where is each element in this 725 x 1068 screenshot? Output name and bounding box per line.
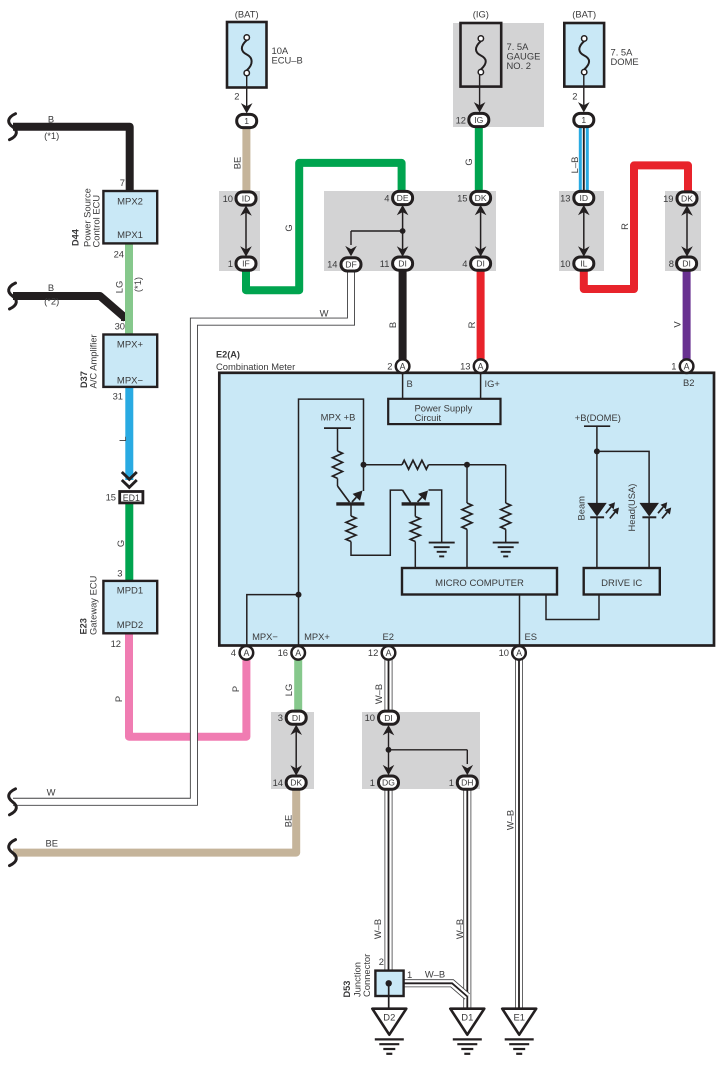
svg-text:16: 16 <box>278 647 288 658</box>
svg-text:3: 3 <box>117 568 122 579</box>
svg-text:2: 2 <box>387 361 392 372</box>
svg-text:1: 1 <box>370 777 375 788</box>
label Head(USA) <box>626 484 637 532</box>
svg-text:R: R <box>619 223 630 230</box>
svg-text:IG: IG <box>474 115 483 125</box>
wire ES from micro computer <box>519 595 521 647</box>
svg-text:4: 4 <box>462 258 467 269</box>
label W upper <box>320 308 329 319</box>
svg-text:31: 31 <box>113 391 123 402</box>
svg-text:MPX−: MPX− <box>252 631 278 642</box>
svg-text:B: B <box>387 322 398 328</box>
svg-text:DI: DI <box>682 259 691 269</box>
resistor R5 Q1 base <box>346 516 356 542</box>
connector oval 14 DK lower <box>273 776 307 789</box>
label L-B <box>569 157 580 174</box>
svg-text:L: L <box>117 436 128 441</box>
svg-text:Control ECU: Control ECU <box>91 195 102 248</box>
ECU box E23 <box>103 581 157 633</box>
label MPX+ <box>304 631 330 642</box>
LED Beam light arrows <box>606 502 619 518</box>
svg-text:NO. 2: NO. 2 <box>507 60 532 71</box>
wire B (*1) black from stub to D44 pin 7 <box>13 127 130 191</box>
label L <box>117 436 128 441</box>
branch to DH <box>389 750 474 776</box>
svg-text:W–B: W–B <box>372 919 383 939</box>
shade box behind fuse (IG) <box>453 23 544 127</box>
label Beam <box>576 496 587 521</box>
ECU box D44 <box>103 191 157 243</box>
svg-text:B: B <box>48 114 54 125</box>
connector oval 1 fuse1 <box>237 114 257 127</box>
label W-B E2 <box>373 684 384 704</box>
shade box behind connector DI/DG/DH <box>362 712 480 789</box>
svg-text:E2(A): E2(A) <box>216 350 240 360</box>
wire LG from D44 pin 24 to D37 pin 30 <box>125 243 133 335</box>
svg-text:MICRO COMPUTER: MICRO COMPUTER <box>435 578 524 589</box>
svg-text:DK: DK <box>681 194 693 204</box>
fuse 7.5A DOME <box>564 23 604 87</box>
svg-text:DI: DI <box>384 713 393 723</box>
connector oval 4 DE <box>384 191 412 204</box>
link DI-DG <box>383 725 395 775</box>
connector oval 1 fuse3 <box>574 113 594 126</box>
svg-text:E1: E1 <box>513 1012 524 1023</box>
wire rail to R2 <box>364 464 403 466</box>
pin 2 fuse1 <box>234 91 239 102</box>
label D44 Power Source Control ECU <box>71 188 102 247</box>
svg-text:MPX +B: MPX +B <box>321 412 356 423</box>
label D53 Junction Connector <box>342 954 372 998</box>
emitter arrow Q1 <box>352 491 363 503</box>
wire G green from IG to DK <box>475 127 483 192</box>
svg-text:BE: BE <box>232 157 243 170</box>
svg-text:15: 15 <box>457 192 467 203</box>
svg-text:7: 7 <box>120 177 125 188</box>
svg-text:10: 10 <box>223 193 233 204</box>
svg-text:R: R <box>466 321 477 328</box>
link DI-DK lower <box>290 725 302 776</box>
pin 2 fuse3 <box>572 91 577 102</box>
svg-text:L–B: L–B <box>569 157 580 174</box>
svg-text:IL: IL <box>580 259 587 269</box>
wire R red from DI to meter pin 13 <box>477 270 485 360</box>
connector oval 8 DI <box>669 257 697 270</box>
svg-text:Circuit: Circuit <box>415 412 442 423</box>
chevron arrows above ED1 <box>122 472 137 487</box>
svg-text:LG: LG <box>114 281 125 294</box>
svg-text:12: 12 <box>111 638 121 649</box>
transistor Q1 <box>336 502 364 505</box>
svg-text:W–B: W–B <box>425 969 445 980</box>
meter pin ES 10 A <box>499 646 526 660</box>
svg-text:DF: DF <box>345 260 356 270</box>
svg-text:A: A <box>478 361 484 371</box>
wire fuse2 to IG oval <box>474 75 486 113</box>
svg-text:G: G <box>283 224 294 231</box>
connector oval 15 DK <box>457 191 491 204</box>
svg-text:W–B: W–B <box>505 810 516 830</box>
ground E1 <box>502 1009 536 1054</box>
junction MPX node <box>296 592 302 598</box>
wire stub brace B (*2) <box>9 283 17 309</box>
shade box behind connector ID/IF <box>219 191 260 271</box>
meter pin 2 A <box>387 359 409 373</box>
svg-text:BE: BE <box>283 815 294 828</box>
wire W white from DF to stub <box>13 271 351 802</box>
svg-text:(*1): (*1) <box>44 130 59 141</box>
svg-text:A: A <box>400 361 406 371</box>
pin 30 D37 <box>115 321 125 332</box>
shade box behind connector ID/IL <box>559 191 604 271</box>
wire fuse1 to connector 1 <box>241 76 253 114</box>
wire W-B from meter E2 to DI <box>385 659 393 712</box>
wire R4 to ground <box>505 529 507 542</box>
wire L-B from connector 1 to ID right <box>579 127 589 192</box>
label W-B ES <box>505 810 516 830</box>
label W-B DH <box>454 919 465 939</box>
svg-text:DE: DE <box>397 193 409 203</box>
svg-text:MPD2: MPD2 <box>117 620 143 631</box>
svg-text:14: 14 <box>327 259 337 270</box>
label +B(DOME) <box>575 412 621 423</box>
svg-text:D53: D53 <box>342 981 352 998</box>
svg-text:15: 15 <box>106 492 116 503</box>
fuse 7.5A GAUGE NO.2 <box>461 23 502 87</box>
svg-text:DH: DH <box>461 778 473 788</box>
label W-B DG <box>372 919 383 939</box>
svg-text:19: 19 <box>663 193 673 204</box>
svg-text:8: 8 <box>669 258 674 269</box>
connector oval 10 ID <box>223 192 256 205</box>
svg-text:Beam: Beam <box>576 496 587 521</box>
svg-text:G: G <box>115 540 126 547</box>
ground D2 <box>372 1009 406 1054</box>
power supply circuit box <box>388 399 500 424</box>
wire R red from IL to DK <box>584 165 688 289</box>
combination meter box E2(A) <box>219 373 714 646</box>
svg-text:D2: D2 <box>383 1012 395 1023</box>
junction dot R3 <box>464 462 470 468</box>
wire MPX- branch <box>247 595 299 646</box>
svg-text:(BAT): (BAT) <box>572 9 596 20</box>
label LG bottom <box>283 684 294 697</box>
link DK-DI right <box>681 205 693 256</box>
label (BAT) fuse3 <box>572 9 596 20</box>
pin 12 E23 <box>111 638 121 649</box>
connector oval 11 DI <box>380 257 413 270</box>
wire B black from DI to meter pin 2 <box>399 270 407 360</box>
connector oval 1 DG <box>370 776 399 789</box>
link ID-IL <box>578 205 590 257</box>
svg-text:A: A <box>386 648 392 658</box>
wire LG overlap at D37 pin 30 <box>125 300 133 335</box>
svg-text:W: W <box>47 787 56 798</box>
label G top <box>283 224 294 231</box>
svg-text:30: 30 <box>115 321 125 332</box>
label ES <box>525 631 538 642</box>
label B (*1) <box>44 114 59 142</box>
wire Q1 base path <box>351 490 411 555</box>
svg-text:W–B: W–B <box>373 684 384 704</box>
pin 2 D53 <box>379 956 384 967</box>
wire V purple from DI to meter B2 <box>683 270 691 360</box>
label E2(A) Combination Meter <box>216 350 295 372</box>
label W lower <box>47 787 56 798</box>
svg-text:B: B <box>407 378 413 389</box>
svg-text:P: P <box>230 686 241 692</box>
wire R2 to corner <box>429 464 506 466</box>
svg-text:ID: ID <box>580 193 589 203</box>
label G fuse IG <box>463 158 474 165</box>
shade box behind connector DI/DK lower-left <box>271 712 314 789</box>
connector oval 13 ID <box>560 191 594 204</box>
svg-text:MPX−: MPX− <box>117 376 144 387</box>
svg-text:4: 4 <box>384 192 389 203</box>
resistor R4 <box>501 503 511 529</box>
svg-text:(*1): (*1) <box>132 277 143 292</box>
label P left <box>113 696 124 702</box>
svg-text:A/C Amplifier: A/C Amplifier <box>88 334 99 388</box>
svg-text:DI: DI <box>476 259 485 269</box>
wire BE from connector 1 to ID <box>242 128 250 193</box>
svg-text:Gateway ECU: Gateway ECU <box>88 575 99 635</box>
meter pin E2 12 A <box>368 646 395 660</box>
meter pin 13 A <box>460 359 487 373</box>
wire corner down to R4 <box>505 465 507 503</box>
wire micro computer to drive ic <box>546 595 599 620</box>
label 7.5A GAUGE NO.2 <box>507 41 541 71</box>
meter pin MPX- 4 A <box>231 646 253 660</box>
svg-text:MPX2: MPX2 <box>117 197 143 208</box>
svg-text:DOME: DOME <box>611 56 639 67</box>
label MPX +B <box>321 412 356 423</box>
svg-text:13: 13 <box>560 192 570 203</box>
svg-text:2: 2 <box>572 91 577 102</box>
svg-text:MPX+: MPX+ <box>304 631 330 642</box>
junction rail dot <box>361 462 367 468</box>
svg-text:1: 1 <box>581 115 586 125</box>
wire BE from DK to stub <box>13 789 296 853</box>
pin 1 D53 <box>407 969 412 980</box>
svg-text:ECU–B: ECU–B <box>272 55 303 66</box>
svg-text:(BAT): (BAT) <box>235 9 259 20</box>
label R right loop <box>619 223 630 230</box>
label IG+ pin <box>485 378 501 389</box>
svg-text:+B(DOME): +B(DOME) <box>575 412 621 423</box>
wire D53 to ground D2 <box>388 983 390 1009</box>
svg-text:1: 1 <box>407 969 412 980</box>
ground R4 <box>493 543 519 557</box>
wire R3 to micro computer <box>466 465 468 568</box>
wire W-B from DH to ground D1 <box>463 789 471 1009</box>
label 7.5A DOME <box>611 47 639 68</box>
svg-text:DG: DG <box>382 778 395 788</box>
svg-text:B: B <box>48 282 54 293</box>
svg-text:V: V <box>672 321 683 328</box>
label D37 A/C Amplifier <box>79 334 99 388</box>
branch to DF <box>345 231 402 256</box>
fuse 10A ECU-B <box>227 22 267 88</box>
wire Q2 base <box>414 506 416 569</box>
svg-text:24: 24 <box>114 249 124 260</box>
wire branch to LED2 <box>597 451 649 503</box>
ground Q2 <box>429 543 455 557</box>
svg-text:(IG): (IG) <box>473 9 489 20</box>
wire LG from meter MPX+ to DI <box>294 659 302 712</box>
svg-text:10: 10 <box>499 647 509 658</box>
svg-text:1: 1 <box>449 777 454 788</box>
wire G green from ED1 to E23 pin 3 <box>125 501 133 581</box>
transistor Q2 <box>402 502 430 505</box>
svg-text:A: A <box>516 648 522 658</box>
wire R1 to Q1 <box>338 478 350 502</box>
pin 24 D44 <box>114 249 124 260</box>
svg-text:1: 1 <box>244 116 249 126</box>
label V purple wire <box>672 321 683 328</box>
ECU box D37 <box>103 335 157 387</box>
svg-text:W: W <box>320 308 329 319</box>
connector oval 1 IF <box>228 257 256 270</box>
svg-text:10: 10 <box>365 712 375 723</box>
wire B (*2) black joining LG wire <box>13 296 126 321</box>
svg-text:W–B: W–B <box>454 919 465 939</box>
label MPX- <box>252 631 278 642</box>
svg-text:1: 1 <box>228 258 233 269</box>
svg-text:Head(USA): Head(USA) <box>626 484 637 532</box>
resistor R1 collector <box>333 451 343 478</box>
svg-text:DI: DI <box>292 713 301 723</box>
wire pin13 to power supply <box>480 373 482 399</box>
svg-text:DI: DI <box>398 259 407 269</box>
svg-text:Connector: Connector <box>361 954 372 997</box>
svg-text:P: P <box>113 696 124 702</box>
connector oval 1 DH <box>449 776 478 789</box>
meter pin MPX+ 16 A <box>278 646 305 660</box>
svg-text:13: 13 <box>460 361 470 372</box>
junction dome dot <box>594 448 600 454</box>
wire G green from IF to DE <box>246 163 402 290</box>
svg-text:DRIVE IC: DRIVE IC <box>601 578 642 589</box>
label B black wire <box>387 322 398 328</box>
wire W-B from D53 pin 1 to D1 wire <box>404 983 468 996</box>
svg-text:LG: LG <box>283 684 294 697</box>
svg-text:ID: ID <box>242 194 251 204</box>
connector oval 10 IL <box>560 257 594 270</box>
svg-text:12: 12 <box>368 647 378 658</box>
svg-text:DK: DK <box>290 778 302 788</box>
drive ic box <box>584 568 660 595</box>
wire L blue from D37 pin 31 to ED1 <box>125 387 133 480</box>
svg-text:A: A <box>684 361 690 371</box>
wire P pink from E23 pin 12 to meter MPX- <box>129 633 246 737</box>
svg-text:2: 2 <box>234 91 239 102</box>
svg-text:ED1: ED1 <box>123 493 140 503</box>
label LG (*1) <box>114 277 143 293</box>
wire MPX+ loop <box>299 399 364 646</box>
LED Head(USA) <box>640 503 658 568</box>
label BE on wire <box>283 815 294 828</box>
label (BAT) fuse1 <box>235 9 259 20</box>
label R red wire <box>466 321 477 328</box>
label W-B D53 <box>425 969 445 980</box>
wire stub brace W <box>9 789 17 815</box>
svg-text:B2: B2 <box>683 377 694 388</box>
link DK-DI <box>475 205 487 257</box>
svg-text:1: 1 <box>671 361 676 372</box>
wire stub brace B (*1) <box>9 114 17 140</box>
LED Head light arrows <box>658 502 671 518</box>
pin 15 ED1 <box>106 492 116 503</box>
label B (*2) <box>44 282 59 307</box>
label E2 <box>383 631 394 642</box>
resistor R3 <box>462 503 472 529</box>
svg-text:G: G <box>463 158 474 165</box>
pin 31 D37 <box>113 391 123 402</box>
svg-text:D44: D44 <box>71 228 81 246</box>
svg-text:IG+: IG+ <box>485 378 501 389</box>
link ID-IF <box>240 205 252 256</box>
wire emitter to rail <box>363 465 365 491</box>
svg-text:IF: IF <box>242 259 250 269</box>
label BE lower left <box>46 838 59 849</box>
wire stub brace BE <box>9 840 17 866</box>
svg-text:A: A <box>295 648 301 658</box>
rail MPX +B <box>324 428 351 451</box>
svg-text:Combination Meter: Combination Meter <box>216 361 295 372</box>
svg-text:3: 3 <box>278 712 283 723</box>
svg-text:D1: D1 <box>461 1012 473 1023</box>
connector oval 3 DI lower <box>278 711 306 724</box>
svg-text:12: 12 <box>456 114 466 125</box>
connector oval 12 IG <box>456 113 489 126</box>
resistor R2 horizontal <box>402 460 429 469</box>
connector oval 10 DI lower <box>365 711 399 724</box>
connector oval 14 DF <box>327 258 361 271</box>
label (IG) fuse2 <box>473 9 489 20</box>
label B2 pin <box>683 377 694 388</box>
svg-text:MPX1: MPX1 <box>117 230 143 241</box>
wire fuse3 to connector 1 <box>578 75 590 113</box>
node ED1 <box>120 492 143 504</box>
label BE top <box>232 157 243 170</box>
svg-text:10: 10 <box>560 258 570 269</box>
svg-text:4: 4 <box>231 647 236 658</box>
shade box behind connector DK/DI right <box>665 191 701 271</box>
wire W-B from meter ES to ground E1 <box>515 659 523 1009</box>
LED Beam <box>588 503 606 568</box>
wire Q2 emitter to ground <box>429 490 442 543</box>
junction connector D53 <box>375 971 403 996</box>
label 10A ECU-B <box>272 45 303 66</box>
connector oval 19 DK <box>663 192 697 205</box>
svg-text:ES: ES <box>525 631 538 642</box>
rail +B(DOME) <box>584 426 610 503</box>
svg-text:DK: DK <box>475 193 487 203</box>
pin 7 D44 <box>120 177 125 188</box>
svg-text:E2: E2 <box>383 631 394 642</box>
meter pin 1 A <box>671 359 693 373</box>
svg-text:A: A <box>243 648 249 658</box>
link DE-DI with junction <box>397 205 409 257</box>
connector oval 4 DI <box>462 257 490 270</box>
svg-text:11: 11 <box>380 258 390 269</box>
ground D1 <box>450 1009 484 1054</box>
svg-text:BE: BE <box>46 838 59 849</box>
micro computer box <box>402 568 557 595</box>
label P right <box>230 686 241 692</box>
wire pin2 to power supply <box>402 373 404 399</box>
